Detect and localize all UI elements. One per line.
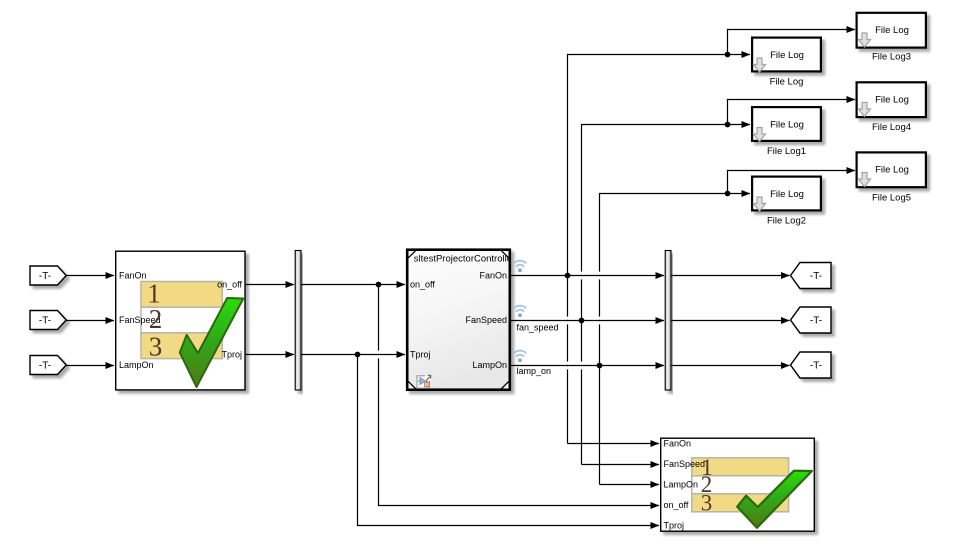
svg-text:LampOn: LampOn	[119, 360, 154, 370]
svg-text:-T-: -T-	[39, 271, 51, 282]
wire controller FanSpeed to bar2	[511, 320, 664, 322]
corner mark top-left	[409, 251, 417, 258]
wire FanSpeed branch to assessment FanSpeed	[582, 464, 660, 466]
svg-text:on_off: on_off	[217, 280, 242, 290]
wire bar2 to Goto3	[671, 365, 790, 367]
svg-text:File Log3: File Log3	[872, 52, 911, 63]
Goto tag G1 (-T-)	[791, 263, 832, 289]
wire on_off branch down to assessment	[379, 285, 660, 506]
svg-text:File Log2: File Log2	[767, 216, 806, 227]
svg-text:File Log: File Log	[770, 77, 804, 88]
svg-text:LampOn: LampOn	[664, 480, 699, 490]
From tag F1 (-T-)	[30, 266, 66, 285]
wire FanOn vertical up to File Log row1	[568, 55, 751, 444]
wifi icon LampOn stream	[514, 351, 526, 363]
svg-text:File Log: File Log	[875, 164, 909, 175]
svg-text:Tproj: Tproj	[221, 350, 242, 360]
From tag F2 (-T-)	[30, 311, 66, 330]
svg-text:FanOn: FanOn	[664, 439, 692, 449]
svg-text:2: 2	[149, 304, 163, 334]
wire bar1 to controller on_off	[301, 284, 405, 286]
Goto tag G2 (-T-)	[791, 307, 832, 333]
svg-text:-T-: -T-	[39, 361, 51, 372]
wire controller LampOn to bar2	[511, 365, 664, 367]
svg-text:3: 3	[149, 332, 163, 362]
junction on FanOn wire	[565, 273, 571, 279]
green check mark (test sequence)	[180, 298, 244, 387]
svg-text:-T-: -T-	[810, 316, 822, 327]
svg-text:Tproj: Tproj	[410, 350, 431, 360]
svg-text:on_off: on_off	[664, 500, 689, 510]
svg-text:File Log4: File Log4	[872, 122, 911, 133]
wire From1 to TestSequence FanOn	[66, 275, 114, 277]
svg-text:File Log: File Log	[770, 189, 804, 200]
wire row1 branch up to File Log3	[728, 30, 856, 55]
svg-text:FanOn: FanOn	[479, 271, 507, 281]
junction on FanSpeed wire	[579, 318, 585, 324]
svg-text:Tproj: Tproj	[664, 521, 685, 531]
svg-text:File Log: File Log	[875, 25, 909, 36]
junction on LampOn wire	[597, 363, 603, 369]
svg-text:FanOn: FanOn	[119, 271, 147, 281]
wire Tproj branch down to assessment	[358, 355, 660, 526]
Goto tag G3 (-T-)	[791, 352, 832, 378]
green check mark (assessment)	[737, 471, 812, 528]
corner mark top-right	[501, 251, 509, 258]
svg-text:File Log: File Log	[770, 119, 804, 130]
junction File Log row2	[725, 122, 731, 128]
svg-text:-T-: -T-	[39, 316, 51, 327]
wire TestSequence on_off to bus bar1	[246, 284, 295, 286]
bus bar2	[665, 251, 671, 391]
wire row2 branch up to File Log4	[728, 100, 856, 125]
svg-text:lamp_on: lamp_on	[517, 366, 552, 376]
test sequence icon rows	[141, 282, 222, 359]
sltestProjectorController model block	[407, 249, 515, 391]
svg-text:File Log: File Log	[875, 94, 909, 105]
wire bar2 to Goto1	[671, 275, 790, 277]
corner mark bottom-left	[409, 382, 417, 389]
wifi icon FanOn stream	[514, 261, 526, 273]
wire crossing gaps	[377, 272, 601, 370]
wire controller FanOn to bar2	[511, 275, 664, 277]
File Log1 block (inner row2)	[752, 107, 821, 157]
wire bar2 to Goto2	[671, 320, 790, 322]
svg-text:-T-: -T-	[810, 361, 822, 372]
wire FanSpeed vertical up to File Log row2	[582, 125, 751, 465]
svg-text:File Log1: File Log1	[767, 146, 806, 157]
wire FanOn branch to assessment FanOn	[568, 443, 660, 445]
svg-text:3: 3	[701, 491, 713, 516]
wifi icon FanSpeed stream	[514, 306, 526, 318]
svg-text:on_off: on_off	[410, 280, 435, 290]
svg-text:fan_speed: fan_speed	[517, 323, 559, 333]
junction on on_off wire	[376, 282, 382, 288]
wire TestSequence Tproj to bus bar1	[246, 354, 295, 356]
svg-text:sltestProjectorController: sltestProjectorController	[414, 254, 515, 265]
Test Sequence subsystem block	[116, 251, 245, 390]
wire bar1 to controller Tproj	[301, 354, 405, 356]
File Log block (inner row1)	[752, 38, 821, 88]
File Log3 block (outer row1)	[857, 13, 926, 63]
junction dots	[355, 52, 731, 369]
bus bar1	[295, 251, 301, 391]
Test Assessment subsystem block	[661, 438, 815, 531]
model badge icon	[417, 374, 432, 388]
wire From3 to TestSequence LampOn	[66, 365, 114, 367]
corner mark bottom-right	[501, 382, 509, 389]
File Log4 block (outer row2)	[857, 82, 926, 133]
svg-text:-T-: -T-	[810, 271, 822, 282]
svg-text:LampOn: LampOn	[472, 360, 507, 370]
junction File Log row1	[725, 52, 731, 58]
From tag F3 (-T-)	[30, 356, 66, 375]
svg-text:FanSpeed: FanSpeed	[664, 459, 706, 469]
junction on Tproj wire	[355, 352, 361, 358]
wire row3 branch up to File Log5	[728, 171, 856, 194]
wire LampOn vertical up to File Log row3	[600, 194, 751, 485]
wire LampOn branch to assessment LampOn	[600, 484, 660, 486]
svg-text:File Log5: File Log5	[872, 193, 911, 204]
File Log2 block (inner row3)	[752, 177, 821, 227]
svg-text:File Log: File Log	[770, 50, 804, 61]
wire From2 to TestSequence FanSpeed	[66, 320, 114, 322]
svg-text:FanSpeed: FanSpeed	[465, 315, 507, 325]
junction File Log row3	[725, 191, 731, 197]
File Log5 block (outer row3)	[857, 152, 926, 203]
assessment icon rows	[692, 458, 789, 512]
